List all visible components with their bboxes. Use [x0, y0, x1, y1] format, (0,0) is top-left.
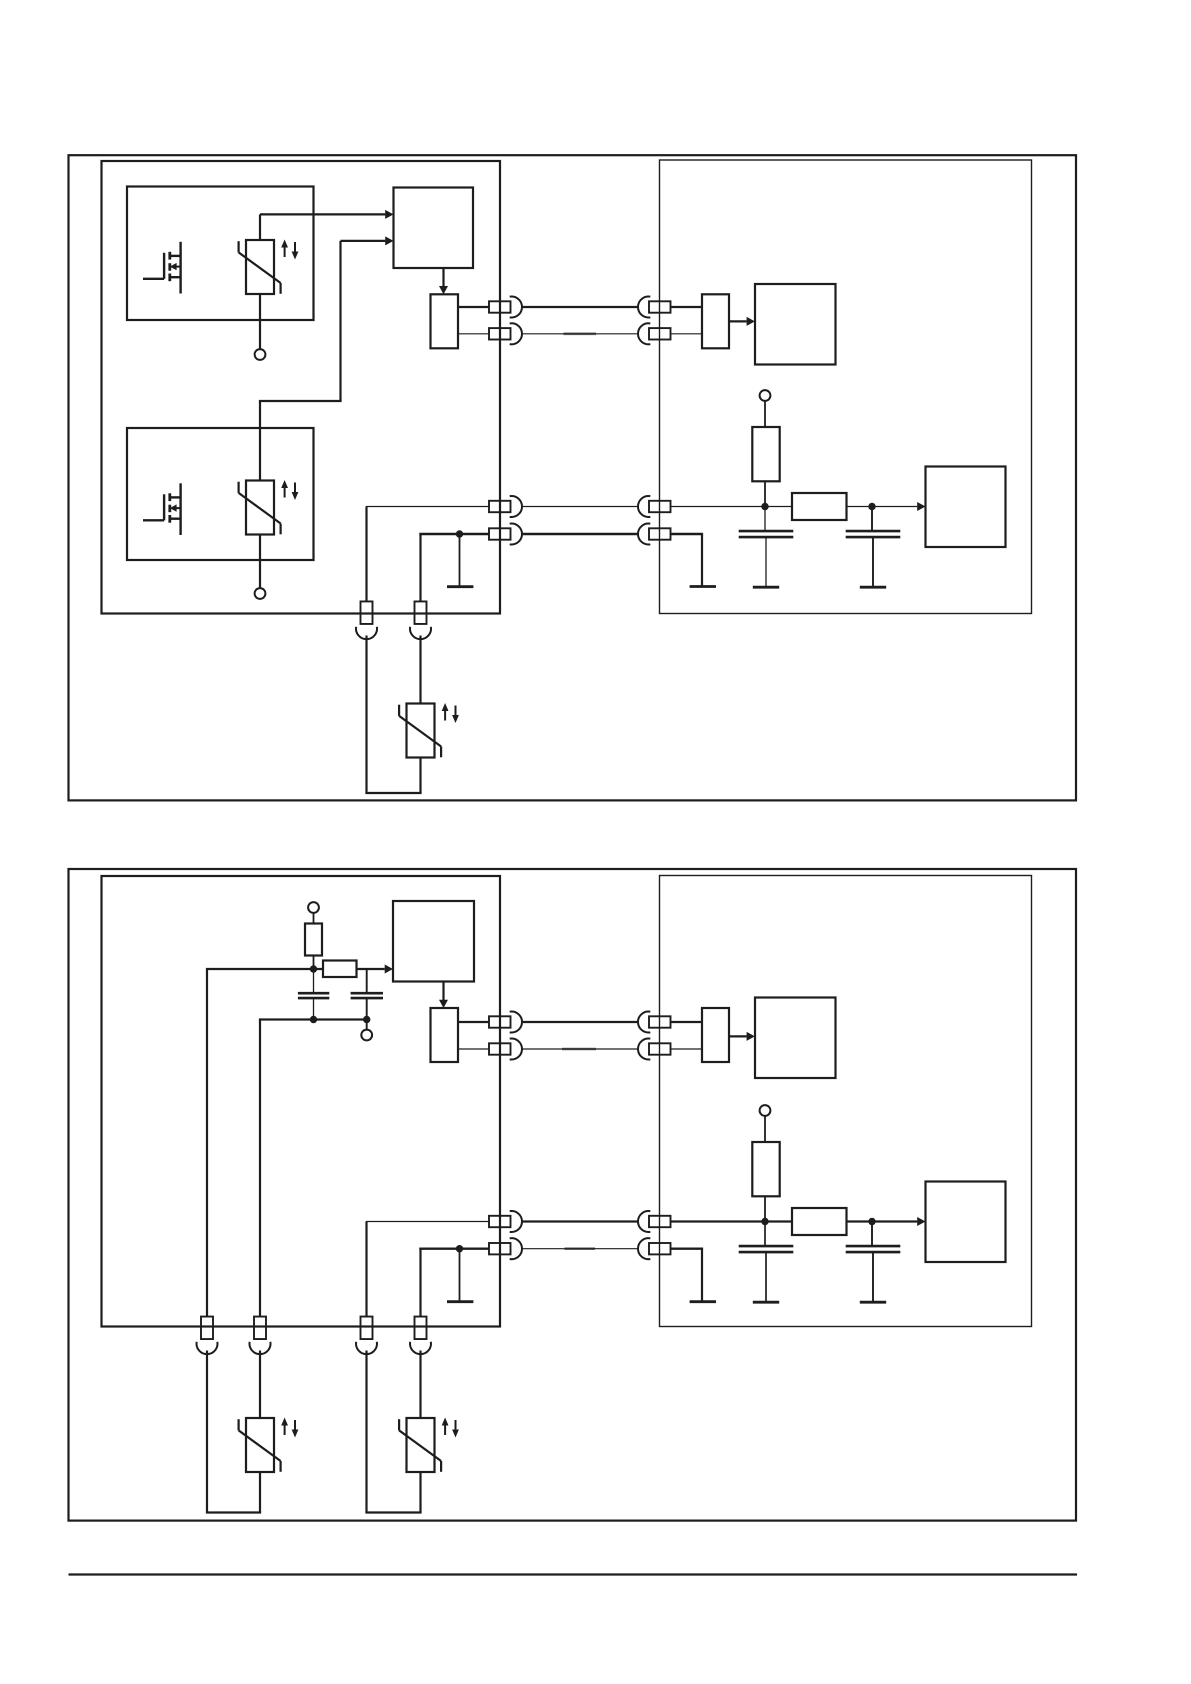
wire pin to filter FB1 — [671, 506, 793, 508]
TVS varistor RV1 — [239, 240, 299, 295]
ECU module box (left) — [102, 161, 501, 614]
capacitor C2 — [846, 531, 901, 537]
switch cell box 1 — [127, 187, 314, 321]
connector housing X4 — [702, 1008, 729, 1062]
coupling arc — [638, 1238, 650, 1259]
wire node to C6 — [871, 1222, 873, 1246]
wire pin to ground stub — [671, 533, 704, 535]
wire node to ground fig2 — [459, 1249, 461, 1301]
TVS varistor RV4 — [239, 1418, 299, 1473]
wire X3 to pin lower — [458, 1048, 489, 1050]
peripheral module box (right) — [660, 160, 1032, 614]
feed-through pin, pair line A — [489, 501, 511, 512]
wire loop A right leg — [259, 1472, 261, 1513]
coupling arc — [510, 323, 522, 344]
cable shield segment fig2 — [562, 1048, 596, 1051]
ground right return — [690, 585, 716, 588]
transistor Q2 (n-channel MOSFET) — [143, 483, 181, 535]
ground left return — [447, 585, 473, 588]
peripheral module box 2 (right) — [660, 876, 1032, 1327]
wire FB1 to microcontroller — [847, 506, 918, 508]
wire down to ground — [701, 534, 703, 586]
feed-through pin, bus line B — [489, 328, 511, 339]
wire loop left leg — [365, 636, 367, 794]
ground C6 — [860, 1301, 886, 1304]
transceiver IC U4 — [393, 901, 474, 982]
wire RV2 to terminal — [259, 535, 261, 589]
coupling arc — [638, 1011, 650, 1032]
cable wire B — [522, 333, 638, 335]
wire C3 to return rail — [313, 998, 315, 1019]
cable wire D — [522, 533, 638, 535]
ground C2 — [860, 586, 886, 589]
wire C1 to ground — [765, 537, 767, 586]
wire varistor RV1 top to node — [259, 214, 261, 240]
wire bottom pin3 to boundary pin — [366, 1221, 489, 1223]
feed-through pin, bus line A — [489, 301, 511, 312]
arrowhead into microcontroller U6 — [917, 1217, 925, 1226]
figure 2 outer frame — [69, 869, 1077, 1521]
cable wire C fig2 — [522, 1220, 638, 1222]
bottom feed-through pin 2 fig2 — [254, 1317, 266, 1340]
wire X2 to U2 — [729, 320, 747, 322]
wire cell1 to U1 input — [260, 213, 385, 215]
junction dot — [868, 503, 875, 510]
arrowhead into U5 — [747, 1032, 755, 1041]
wire loop A bottom — [206, 1511, 261, 1513]
figure 1 outer frame — [69, 155, 1077, 800]
wire junction to C4 — [366, 969, 368, 993]
arrowhead into U4 — [385, 965, 393, 974]
wire C2 to ground — [872, 537, 874, 586]
supply terminal VBAT fig2 — [760, 1105, 771, 1116]
wire C5 to ground — [765, 1252, 767, 1301]
wire RV1 to terminal — [259, 294, 261, 349]
bottom feed-through pin 1 fig2 — [201, 1317, 213, 1340]
capacitor C6 — [846, 1246, 901, 1252]
cable wire A fig2 — [522, 1021, 638, 1023]
wire pin to X2 — [671, 306, 703, 308]
wire VBAT to R1 — [764, 401, 766, 427]
wire pin to ground stub fig2 — [671, 1247, 704, 1249]
wire loop B left leg — [365, 1351, 367, 1513]
coupling arc — [510, 524, 522, 545]
coupling arc — [510, 1039, 522, 1060]
receiver IC U5 — [755, 998, 836, 1079]
arrowhead into X1 — [439, 286, 448, 294]
coupling arc — [510, 496, 522, 517]
junction dot — [868, 1218, 875, 1225]
wire FB2 to U4 — [357, 968, 385, 970]
TVS varistor RV5 — [399, 1418, 459, 1473]
resistor R1 — [752, 427, 779, 481]
cable wire C — [522, 506, 638, 508]
TVS varistor RV2 — [239, 480, 299, 535]
capacitor C5 — [739, 1246, 794, 1252]
wire node to C5 — [764, 1222, 766, 1246]
coupling arc — [197, 1342, 218, 1354]
wire down to bottom pin 2 — [419, 534, 421, 602]
cable wire D fig2 — [522, 1248, 638, 1250]
coupling arc — [510, 1238, 522, 1259]
wire C6 to ground — [872, 1252, 874, 1301]
ground terminal — [361, 1030, 372, 1041]
wire pin to FB3 — [671, 1220, 793, 1222]
connector housing X3 — [431, 1008, 459, 1062]
capacitor C3 — [298, 993, 329, 998]
wire FB3 to microcontroller — [847, 1220, 918, 1222]
wire vertical from cell2 path — [339, 241, 341, 401]
wire to ground terminal — [366, 1020, 368, 1030]
coupling arc — [638, 1211, 650, 1232]
arrowhead into X3 — [439, 1000, 448, 1008]
ECU module box 2 (left) — [102, 876, 501, 1327]
coupling arc — [510, 1211, 522, 1232]
junction dot — [456, 530, 463, 537]
resistor R3 — [752, 1142, 779, 1196]
feed-through pin, pair B fig2 — [489, 1243, 511, 1254]
feed-through pin, pair A fig2 — [489, 1216, 511, 1227]
bottom feed-through pin 2 — [415, 601, 427, 624]
cable shield segment lower fig2 — [565, 1247, 596, 1250]
wire down to bottom pin 1 — [365, 507, 367, 602]
feed-through pin right, bus B fig2 — [649, 1043, 671, 1054]
feed-through pin right, pair A fig2 — [649, 1216, 671, 1227]
coupling arc — [638, 297, 650, 318]
return rail wire — [259, 1018, 368, 1020]
wire node to C2 — [871, 507, 873, 531]
feed-through pin, bus line A right — [649, 301, 671, 312]
coupling arc — [356, 1342, 377, 1354]
supply terminal VBAT — [760, 390, 771, 401]
junction dot — [310, 1016, 317, 1023]
wire left leg to bottom pin 1 — [206, 969, 208, 1316]
wire down to bottom pin 4 — [419, 1249, 421, 1317]
microcontroller U3 — [926, 467, 1006, 548]
feed-through pin, bus B fig2 — [489, 1043, 511, 1054]
supply rail wire — [206, 968, 323, 970]
capacitor C4 — [351, 993, 383, 998]
resistor R2 — [305, 924, 322, 956]
coupling arc — [638, 323, 650, 344]
supply terminal VS — [308, 902, 319, 913]
wire X3 to pin — [458, 1021, 489, 1023]
wire bottom pin1 to boundary pin — [366, 506, 489, 508]
wire to U1 input 2 — [341, 240, 386, 242]
junction dot — [761, 503, 768, 510]
coupling arc — [638, 496, 650, 517]
wire R1 to node — [764, 481, 766, 506]
wire loop B right leg — [419, 1472, 421, 1513]
junction dot — [761, 1218, 768, 1225]
ground C5 — [753, 1301, 779, 1304]
coupling arc — [510, 297, 522, 318]
arrowhead into microcontroller U3 — [917, 502, 925, 511]
wire pin to X4 — [671, 1021, 703, 1023]
wire node to ground — [459, 534, 461, 586]
wire VS to R2 — [313, 913, 315, 924]
cable shield segment — [564, 332, 597, 335]
cable wire A — [522, 306, 638, 308]
wire loop B bottom — [365, 1511, 421, 1513]
microcontroller U6 — [926, 1182, 1006, 1263]
coupling arc — [356, 627, 377, 639]
output terminal of cell 1 — [255, 349, 266, 360]
coupling arc — [638, 1039, 650, 1060]
output terminal of cell 2 — [255, 588, 266, 599]
bottom feed-through pin 3 fig2 — [361, 1317, 373, 1340]
wire pin to X2 lower — [671, 333, 703, 335]
wire U1 to connector X1 — [442, 268, 444, 287]
connector housing X2 — [702, 294, 729, 348]
coupling arc — [410, 1342, 431, 1354]
ground right return fig2 — [690, 1300, 716, 1303]
cable wire B fig2 — [522, 1048, 638, 1050]
wire loop bottom — [365, 792, 421, 794]
feed-through pin right, pair B fig2 — [649, 1243, 671, 1254]
wire down to ground fig2 — [701, 1249, 703, 1301]
arrowhead into U2 — [747, 317, 755, 326]
filter bead FB2 — [323, 961, 357, 978]
feed-through pin, bus A fig2 — [489, 1016, 511, 1027]
wire bottom pin4 to boundary pin — [419, 1247, 489, 1249]
wire R2 to node — [313, 956, 315, 970]
capacitor C1 — [739, 531, 794, 537]
coupling arc — [510, 1011, 522, 1032]
feed-through pin, pair line B — [489, 528, 511, 539]
wire to varistor RV3 — [419, 636, 421, 704]
receiver IC U2 — [755, 284, 836, 365]
bottom feed-through pin 4 fig2 — [415, 1317, 427, 1340]
wire loop right leg — [419, 758, 421, 794]
coupling arc — [410, 627, 431, 639]
wire X1 to pin 1 — [458, 306, 489, 308]
wire C4 to return rail — [366, 998, 368, 1019]
coupling arc — [638, 524, 650, 545]
junction dot — [363, 1016, 370, 1023]
wire U4 to connector X3 — [442, 982, 444, 1001]
wire leg to bottom pin 2 — [259, 1020, 261, 1317]
wire to varistor RV2 — [259, 401, 261, 481]
filter bead FB1 — [792, 493, 847, 520]
switch cell box 2 — [127, 428, 314, 560]
transistor Q1 (n-channel MOSFET) — [143, 242, 181, 294]
bottom feed-through pin 1 — [361, 601, 373, 624]
feed-through pin right, bus A fig2 — [649, 1016, 671, 1027]
wire node to C1 — [764, 507, 766, 531]
wire jog to cell2 — [259, 400, 342, 402]
wire to varistor RV4 — [259, 1351, 261, 1419]
feed-through pin right, pair line A — [649, 501, 671, 512]
junction dot — [310, 965, 317, 972]
connector housing X1 — [431, 294, 459, 348]
wire pin to X4 lower — [671, 1048, 703, 1050]
wire node to C3 — [313, 969, 315, 993]
wire to varistor RV5 — [419, 1351, 421, 1419]
arrowhead into U1 pin 1 — [385, 210, 393, 219]
filter bead FB3 — [792, 1208, 847, 1235]
wire VBAT to R3 — [764, 1116, 766, 1142]
transmitter IC U1 — [394, 188, 474, 269]
feed-through pin right, pair line B — [649, 528, 671, 539]
wire bottom pin2 to boundary pin — [419, 533, 489, 535]
coupling arc — [250, 1342, 271, 1354]
ground left return fig2 — [447, 1300, 473, 1303]
wire R3 to node — [764, 1196, 766, 1221]
TVS varistor RV3 — [399, 703, 459, 758]
junction dot — [456, 1245, 463, 1252]
footer rule — [69, 1573, 1078, 1575]
ground C1 — [753, 586, 779, 589]
wire loop A left leg — [206, 1351, 208, 1513]
wire X4 to U5 — [729, 1035, 747, 1037]
feed-through pin, bus line B right — [649, 328, 671, 339]
arrowhead into U1 pin 2 — [385, 236, 393, 245]
wire down to bottom pin 3 — [365, 1222, 367, 1317]
wire X1 to pin 2 — [458, 333, 489, 335]
